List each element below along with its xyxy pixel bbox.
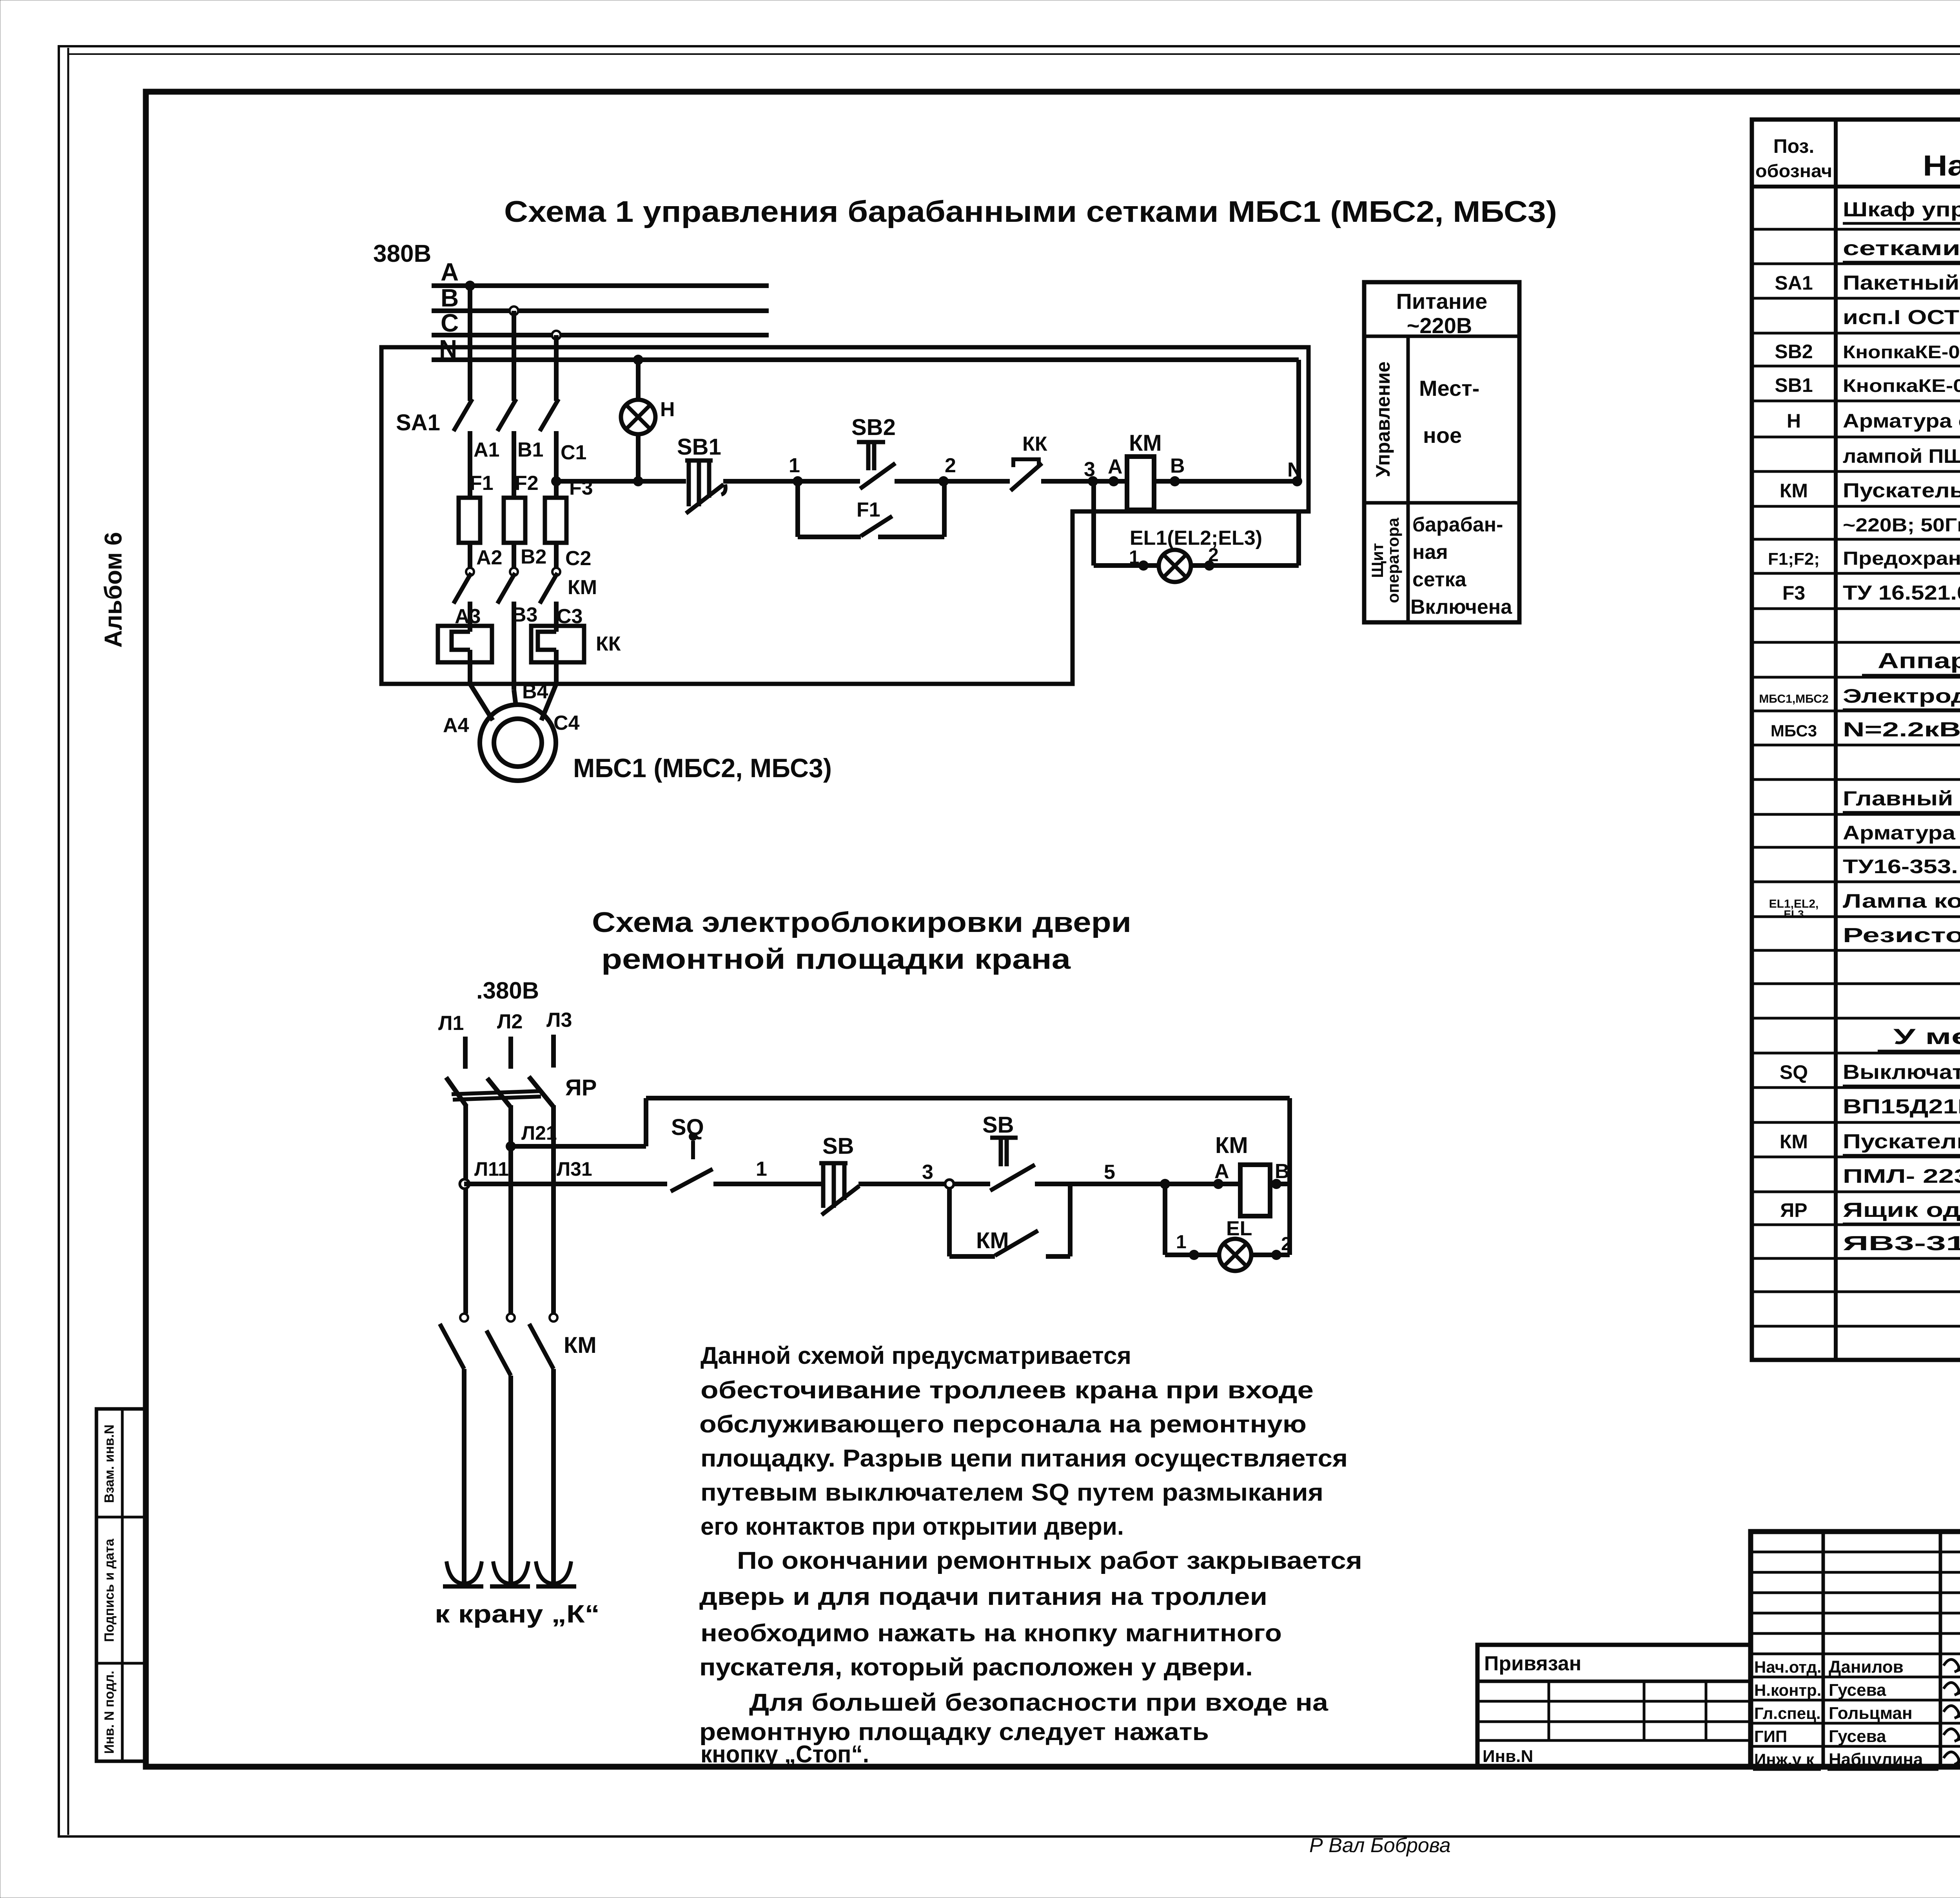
svg-text:В: В	[441, 284, 459, 312]
svg-text:Предохранитель ППТ-10 Jп.л.Вст: Предохранитель ППТ-10 Jп.л.Вст:10А	[1843, 548, 1960, 569]
table row Аппаратура по месту	[1862, 648, 1960, 675]
svg-text:Гл.спец.: Гл.спец.	[1754, 1704, 1821, 1722]
svg-text:Л1: Л1	[438, 1012, 464, 1035]
svg-text:EL: EL	[1226, 1217, 1252, 1240]
lamp EL	[1219, 1239, 1251, 1271]
lamp H	[621, 400, 655, 434]
svg-text:Взам. инв.N: Взам. инв.N	[102, 1425, 117, 1503]
control rung wire	[556, 479, 1297, 484]
wire phase B upper	[512, 311, 516, 401]
wire L2 lower	[508, 1105, 513, 1314]
svg-text:SA1: SA1	[1775, 272, 1813, 294]
svg-text:SB: SB	[822, 1133, 854, 1159]
table row ~220В; 50Гц; J=6.3А ГОСТ	[1843, 513, 1960, 536]
svg-text:SB2: SB2	[851, 415, 896, 440]
table row Ящик однолинейный ~380В	[1780, 1199, 1960, 1224]
svg-text:С2: С2	[565, 547, 591, 570]
svg-text:КМ: КМ	[1780, 480, 1808, 502]
svg-text:КМ: КМ	[1129, 430, 1162, 456]
table row КнопкаКЕ-011У3исп.2 ТУ16	[1775, 340, 1960, 363]
node 3	[1088, 476, 1098, 486]
lamp branch node 2	[1204, 560, 1214, 571]
svg-text:дверь и для подачи питания на: дверь и для подачи питания на троллеи	[699, 1583, 1267, 1610]
table row Главный корпус. Щит опер	[1843, 787, 1960, 812]
svg-text:обслуживающего персонала на ре: обслуживающего персонала на ремонтную	[699, 1411, 1307, 1438]
bus A	[432, 283, 769, 288]
svg-text:Гусева: Гусева	[1829, 1680, 1886, 1700]
svg-text:Данной схемой предусматриваетс: Данной схемой предусматривается	[701, 1342, 1131, 1369]
wire L1 stub	[463, 1037, 468, 1069]
svg-text:А4: А4	[443, 714, 469, 737]
junction on bus C	[552, 331, 561, 339]
svg-text:к крану „К“: к крану „К“	[435, 1600, 600, 1628]
svg-text:Для большей безопасности при в: Для большей безопасности при входе на	[749, 1689, 1328, 1716]
junction on bus B	[510, 306, 518, 315]
svg-text:SB1: SB1	[677, 434, 721, 460]
svg-text:Л11: Л11	[474, 1158, 509, 1180]
thermal relay KK heater C	[531, 626, 584, 662]
pushbutton SB1	[685, 460, 726, 513]
svg-text:Схема электроблокировки двери: Схема электроблокировки двери	[592, 907, 1131, 938]
contactor KM pole B	[497, 573, 515, 604]
svg-text:EL3: EL3	[1784, 908, 1804, 920]
svg-text:~220В; 50Гц; J=6.3А ГОСТ 2491-: ~220В; 50Гц; J=6.3А ГОСТ 2491-72	[1843, 515, 1960, 536]
svg-text:Нач.отд.: Нач.отд.	[1754, 1658, 1822, 1676]
stop button SB	[819, 1163, 859, 1215]
description text block	[699, 1342, 1362, 1768]
svg-text:А: А	[1108, 455, 1123, 478]
svg-text:Пускатель магнитный ПМЕ-212: Пускатель магнитный ПМЕ-212	[1843, 479, 1960, 502]
switch YaR blades	[446, 1077, 553, 1106]
svg-text:Выключатель путевой: Выключатель путевой	[1843, 1061, 1960, 1084]
wire B to motor	[514, 690, 516, 705]
svg-text:В: В	[1170, 455, 1185, 477]
svg-text:EL1(EL2;EL3): EL1(EL2;EL3)	[1130, 527, 1262, 549]
contactor KM pole C seat	[552, 568, 560, 576]
legend cell барабанная сетка включена	[1410, 513, 1512, 618]
svg-text:В2: В2	[521, 546, 546, 568]
svg-text:380В: 380В	[373, 240, 431, 267]
svg-text:В4: В4	[522, 680, 548, 703]
svg-text:1: 1	[756, 1158, 767, 1180]
svg-text:F1: F1	[470, 472, 494, 495]
node L11	[460, 1179, 469, 1189]
svg-text:Данилов: Данилов	[1829, 1657, 1904, 1677]
signatures	[1944, 1659, 1960, 1764]
svg-text:1: 1	[789, 454, 800, 477]
svg-text:N=2.2кВт; ~380В: N=2.2кВт; ~380В	[1843, 718, 1960, 741]
contactor KM pole L3	[529, 1314, 557, 1584]
svg-text:Привязан: Привязан	[1484, 1652, 1581, 1675]
holding contact branch	[798, 481, 944, 537]
node 5	[1160, 1179, 1170, 1189]
svg-text:ЯР: ЯР	[565, 1075, 597, 1100]
svg-text:Аппаратура по месту: Аппаратура по месту	[1878, 648, 1960, 673]
svg-text:сетками: сетками	[1843, 237, 1960, 260]
svg-text:Наименование: Наименование	[1923, 149, 1960, 182]
table row ТУ 16.521.037-75	[1782, 582, 1960, 604]
svg-text:2: 2	[1281, 1234, 1292, 1254]
switch SA1 pole A	[454, 399, 472, 431]
table row Выключатель путевой	[1780, 1061, 1960, 1086]
svg-text:Пускатель магнитный: Пускатель магнитный	[1843, 1130, 1960, 1153]
wire fuse C to contact	[554, 543, 559, 568]
lamp branch wire	[1094, 481, 1299, 566]
svg-text:площадку. Разрыв цепи питания: площадку. Разрыв цепи питания осуществля…	[701, 1445, 1348, 1472]
lamp H wire bottom	[636, 434, 641, 481]
privyazan box	[1477, 1645, 1751, 1767]
switch SA1 pole B	[497, 399, 516, 431]
svg-text:КМ: КМ	[568, 576, 597, 599]
contactor KM pole C	[540, 573, 557, 604]
table row N=2.2кВт; ~380В	[1771, 718, 1960, 741]
svg-text:КК: КК	[596, 633, 621, 655]
svg-text:Л3: Л3	[546, 1009, 572, 1031]
node L21	[506, 1141, 516, 1151]
thermal relay KK heater A	[438, 626, 492, 662]
node 3	[945, 1180, 954, 1188]
svg-text:ЯВ3-31-1,: ЯВ3-31-1,	[1843, 1232, 1960, 1255]
svg-text:Поз.: Поз.	[1773, 135, 1815, 157]
table row Резистор ПЭВ-25	[1843, 924, 1960, 947]
lamp H wire top	[636, 360, 641, 401]
svg-text:F3: F3	[1782, 582, 1805, 604]
wire L2 stub	[508, 1037, 513, 1069]
table row Арматура АМЕ323.221У2 ~2	[1843, 822, 1960, 844]
svg-text:КнопкаКЕ-011У3исп.2 ТУ16-526.: КнопкаКЕ-011У3исп.2 ТУ16-526. 407-76 Е	[1843, 342, 1960, 362]
top rail	[646, 1096, 1290, 1100]
wire C to motor	[541, 684, 556, 720]
node 1	[793, 476, 803, 486]
lamp node 2	[1271, 1250, 1281, 1260]
cable arrow L2	[490, 1561, 530, 1586]
left stamp column	[96, 1409, 145, 1761]
svg-text:F1;F2;: F1;F2;	[1768, 549, 1820, 569]
table row ТУ16-353. 582-76. В комп	[1843, 856, 1960, 877]
lamp EL branch	[1165, 1184, 1290, 1255]
cable arrow L1	[443, 1561, 483, 1586]
svg-text:Инж.у к: Инж.у к	[1754, 1750, 1815, 1769]
thermal contact KK	[1011, 459, 1042, 491]
svg-text:Н.контр.: Н.контр.	[1754, 1681, 1821, 1699]
svg-text:ЯР: ЯР	[1780, 1199, 1807, 1221]
table row КнопкаКЕ-011У3исп.2ТУ16-	[1775, 374, 1960, 397]
svg-text:ное: ное	[1423, 423, 1462, 448]
fuse F2	[504, 498, 525, 543]
table header	[1755, 135, 1960, 182]
svg-text:У механизма: У механизма	[1893, 1024, 1960, 1049]
wire L21 to rail	[511, 1098, 646, 1146]
wire contact B down	[512, 602, 516, 690]
node 2	[938, 476, 949, 486]
switch SA1 pole C	[540, 399, 559, 431]
svg-text:~220В: ~220В	[1407, 313, 1472, 338]
svg-text:Ящик однолинейный ~380В: Ящик однолинейный ~380В	[1843, 1199, 1960, 1222]
lamp node 1	[1189, 1250, 1199, 1260]
svg-text:сетка: сетка	[1412, 568, 1467, 591]
right rail	[1287, 1098, 1292, 1255]
motor MBC1	[480, 705, 556, 781]
svg-text:Лампа коммутаторная КМ24-90: Лампа коммутаторная КМ24-90	[1843, 890, 1960, 912]
svg-text:Арматура АМЕ323.221У2 ~220В: Арматура АМЕ323.221У2 ~220В	[1843, 822, 1960, 844]
table row Пускатель магнитный	[1780, 1130, 1960, 1155]
svg-text:Шкаф управления барабанными: Шкаф управления барабанными	[1843, 198, 1960, 221]
svg-text:Питание: Питание	[1396, 289, 1488, 314]
contactor coil KM	[1127, 457, 1154, 510]
enclosure wire outline	[381, 347, 1308, 684]
contactor KM pole A	[454, 573, 471, 604]
svg-text:кнопку „Стоп“.: кнопку „Стоп“.	[701, 1741, 869, 1768]
lamp EL1	[1159, 550, 1191, 582]
wire L3 lower	[551, 1105, 556, 1314]
svg-text:КМ: КМ	[1780, 1131, 1808, 1153]
svg-text:Н: Н	[1787, 410, 1801, 432]
svg-text:ПМЛ- 223002 УХЛ4 Jн.=25А: ПМЛ- 223002 УХЛ4 Jн.=25А	[1843, 1165, 1960, 1187]
bus N	[432, 360, 1299, 481]
svg-text:Главный корпус. Щит оператора: Главный корпус. Щит оператора	[1843, 787, 1960, 810]
table row Лампа коммутаторная КМ24	[1769, 890, 1960, 920]
table row Электродвигатель 4А100L6	[1759, 685, 1960, 710]
svg-text:Схема 1 управления барабанными: Схема 1 управления барабанными сетками М…	[504, 195, 1557, 228]
start button SB	[990, 1138, 1035, 1191]
svg-text:Пакетный выключатель ПВ3-10: Пакетный выключатель ПВ3-10	[1843, 272, 1960, 294]
svg-text:обознач: обознач	[1755, 161, 1832, 181]
junction on bus N	[633, 355, 643, 365]
svg-text:Мест-: Мест-	[1419, 376, 1479, 401]
svg-text:КК: КК	[1022, 433, 1047, 455]
wire phase B mid	[512, 431, 516, 498]
table row ЯВ3-31-1,	[1843, 1232, 1960, 1255]
wire contact A to heater	[468, 602, 472, 684]
svg-text:МБС1,МБС2: МБС1,МБС2	[1759, 692, 1828, 705]
limit switch SQ	[671, 1132, 713, 1191]
legend rotated Щит оператора	[1368, 517, 1402, 603]
svg-text:Арматура светосигнальная АС-2: Арматура светосигнальная АС-2 с	[1843, 410, 1960, 432]
svg-text:КМ: КМ	[564, 1332, 597, 1358]
node A dot	[1109, 476, 1119, 486]
wire L3 stub	[551, 1035, 556, 1068]
table row сетками	[1843, 237, 1960, 262]
wire phase A mid	[468, 431, 472, 498]
junction on bus A	[465, 281, 475, 291]
svg-text:исп.I ОСТ 16.052 Б. 001 - 77: исп.I ОСТ 16.052 Б. 001 - 77	[1843, 306, 1960, 329]
svg-text:1: 1	[1176, 1232, 1187, 1253]
svg-text:пускателя, который расположен: пускателя, который расположен у двери.	[699, 1654, 1253, 1681]
svg-text:Р Вал Боброва: Р Вал Боброва	[1309, 1834, 1451, 1857]
node B dot	[1271, 1179, 1281, 1189]
holding contact branch	[949, 1184, 1070, 1256]
table row У механизма	[1878, 1024, 1960, 1051]
contactor KM pole L1	[440, 1314, 468, 1584]
svg-text:Набцулина: Набцулина	[1829, 1750, 1923, 1769]
svg-text:обесточивание троллеев крана п: обесточивание троллеев крана при входе	[701, 1377, 1314, 1404]
signature labels	[1754, 1657, 1923, 1769]
table row Пакетный выключатель ПВ3	[1775, 272, 1960, 294]
svg-text:SB: SB	[982, 1112, 1014, 1138]
svg-text:С4: С4	[554, 712, 580, 734]
svg-text:МБС1 (МБС2, МБС3): МБС1 (МБС2, МБС3)	[573, 753, 832, 783]
svg-text:Инв.N: Инв.N	[1483, 1747, 1533, 1766]
svg-text:SB1: SB1	[1775, 374, 1813, 396]
cable arrow L3	[536, 1561, 576, 1586]
wire phase C upper	[554, 335, 559, 401]
svg-text:КМ: КМ	[1215, 1133, 1248, 1158]
bus B	[432, 308, 769, 313]
bus C	[432, 333, 769, 337]
fuse F1	[459, 498, 480, 543]
svg-text:его контактов при открытии две: его контактов при открытии двери.	[701, 1513, 1124, 1540]
rung wire	[464, 1182, 1290, 1186]
contactor KM pole L2	[486, 1314, 515, 1584]
table row исп.I ОСТ 16.052 Б. 001	[1843, 306, 1960, 329]
contactor KM pole A seat	[466, 568, 474, 576]
svg-text:путевым выключателем SQ путем: путевым выключателем SQ путем размыкания	[701, 1479, 1323, 1506]
svg-text:Л2: Л2	[497, 1010, 523, 1033]
svg-text:А1: А1	[474, 439, 499, 461]
junction rung at lamp	[633, 476, 643, 486]
svg-text:ТУ 16.521.037-75: ТУ 16.521.037-75	[1843, 582, 1960, 604]
svg-text:Электродвигатель 4А100L6 У3: Электродвигатель 4А100L6 У3	[1843, 685, 1960, 707]
svg-text:Л21: Л21	[521, 1122, 557, 1144]
svg-text:необходимо нажать на кнопку ма: необходимо нажать на кнопку магнитного	[701, 1620, 1282, 1647]
lamp branch node 1	[1138, 560, 1149, 571]
wire fuse A to contact	[468, 543, 472, 568]
svg-text:В1: В1	[517, 439, 543, 461]
svg-text:ремонтной площадки крана: ремонтной площадки крана	[601, 944, 1071, 975]
parts table grid	[1752, 120, 1960, 1360]
pushbutton SB2	[857, 442, 895, 489]
svg-text:А: А	[441, 258, 459, 286]
svg-text:Н: Н	[660, 398, 675, 421]
table row Арматура светосигнальная	[1787, 410, 1960, 432]
node N dot	[1292, 476, 1302, 486]
svg-text:С1: С1	[561, 441, 586, 464]
svg-text:ТУ16-353. 582-76. В комплекте:: ТУ16-353. 582-76. В комплекте:	[1843, 856, 1960, 877]
svg-text:По окончании ремонтных работ з: По окончании ремонтных работ закрывается	[737, 1547, 1362, 1574]
svg-text:SA1: SA1	[396, 410, 440, 435]
svg-text:оператора: оператора	[1384, 517, 1402, 603]
svg-text:SQ: SQ	[671, 1115, 704, 1140]
legend cell Местное	[1419, 376, 1479, 448]
contactor coil KM	[1240, 1165, 1270, 1216]
svg-text:Инв. N подл.: Инв. N подл.	[102, 1671, 117, 1754]
svg-text:F1: F1	[857, 499, 880, 521]
svg-text:МБС3: МБС3	[1771, 721, 1817, 740]
svg-text:лампой ПШ-220-15 ГОСТ 5011-77: лампой ПШ-220-15 ГОСТ 5011-77	[1843, 445, 1960, 467]
title block frame	[1751, 1532, 1960, 1767]
svg-text:Альбом 6: Альбом 6	[100, 532, 127, 647]
svg-text:Л31: Л31	[557, 1158, 592, 1180]
wire A to motor	[470, 684, 493, 720]
svg-text:Гусева: Гусева	[1829, 1727, 1886, 1746]
wire L1 lower	[463, 1105, 468, 1314]
svg-text:КнопкаКЕ-011У3исп.2ТУ16-526.40: КнопкаКЕ-011У3исп.2ТУ16-526.407-76Е	[1843, 375, 1960, 396]
wire contact C to heater	[554, 602, 559, 684]
svg-text:Подпись и дата: Подпись и дата	[102, 1538, 117, 1642]
svg-text:SB2: SB2	[1775, 341, 1813, 363]
svg-text:ная: ная	[1412, 541, 1448, 564]
svg-text:F2: F2	[515, 472, 539, 495]
fuse F3	[545, 498, 566, 543]
table row Пускатель магнитный ПМЕ-	[1780, 479, 1960, 502]
node A dot	[1213, 1179, 1223, 1189]
svg-text:барабан-: барабан-	[1412, 513, 1503, 536]
table row Предохранитель ППТ-10 Jп	[1768, 547, 1960, 569]
svg-text:ГИП: ГИП	[1754, 1727, 1787, 1746]
wire fuse B to contact	[512, 543, 516, 568]
svg-text:Резистор ПЭВ-25: Резистор ПЭВ-25	[1843, 924, 1960, 947]
svg-text:.380В: .380В	[476, 977, 539, 1004]
svg-text:ВП15Д21Б11154 У2: ВП15Д21Б11154 У2	[1843, 1095, 1960, 1118]
svg-text:3: 3	[922, 1161, 933, 1184]
svg-text:А2: А2	[476, 546, 502, 569]
svg-text:SQ: SQ	[1780, 1061, 1808, 1083]
svg-text:2: 2	[945, 454, 956, 477]
contactor KM pole B seat	[510, 568, 518, 576]
wire phase C mid	[554, 431, 559, 498]
svg-text:Управление: Управление	[1372, 361, 1394, 477]
svg-text:Включена: Включена	[1410, 596, 1512, 618]
table row лампой ПШ-220-15 ГОСТ 50	[1843, 445, 1960, 468]
node B dot	[1170, 476, 1180, 486]
power legend box	[1364, 282, 1519, 622]
wire phase A upper	[468, 286, 472, 401]
svg-text:5: 5	[1104, 1161, 1115, 1184]
table row Шкаф управления барабанн	[1843, 198, 1960, 223]
svg-text:Гольцман: Гольцман	[1829, 1704, 1913, 1723]
svg-text:1: 1	[1129, 547, 1140, 568]
table row ПМЛ- 223002 УХЛ4 Jн.=25	[1843, 1165, 1960, 1187]
junction control tap on C	[551, 476, 561, 486]
table row ВП15Д21Б11154 У2	[1843, 1095, 1960, 1118]
